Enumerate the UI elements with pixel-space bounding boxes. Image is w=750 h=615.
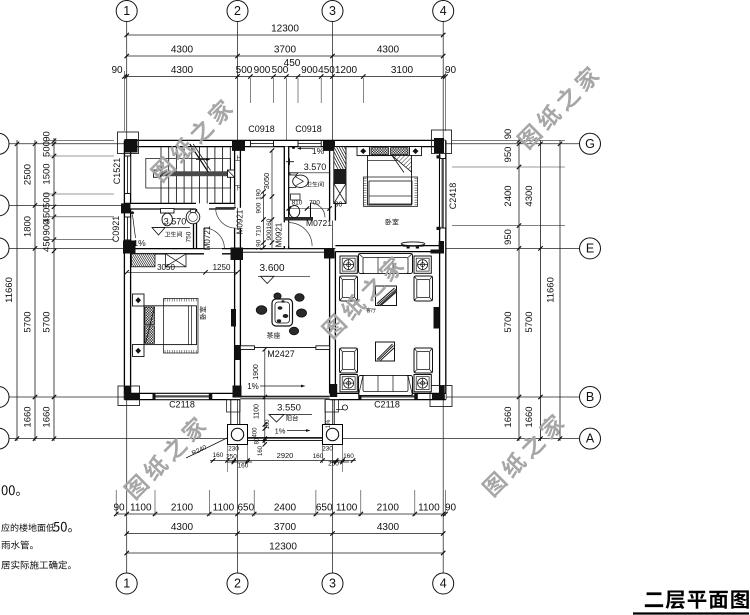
note text line 4 — [1, 561, 71, 570]
bedroom2 blanket fold — [392, 156, 412, 173]
svg-text:1250: 1250 — [213, 263, 231, 272]
tea south wall + M2427 stubs — [240, 346, 254, 350]
right dimension line 11660 — [559, 140, 561, 441]
wall interior axis2 bedroom/tea (E to B) — [235, 252, 241, 394]
svg-text:E: E — [586, 241, 594, 255]
bedroom2 dresser on E wall — [401, 242, 425, 246]
column axis4/E (L shape) — [439, 241, 444, 254]
bath1 toilet — [161, 209, 175, 214]
bottom dimension row 12300 — [127, 552, 444, 554]
column axis2/B — [233, 386, 242, 398]
bath2 toilet — [291, 194, 301, 200]
living side table bottom-left — [340, 375, 357, 392]
door M2427 sliding track — [255, 347, 316, 349]
column axis1/E — [123, 241, 136, 254]
column axis2/E — [231, 248, 244, 261]
column axis3/G — [323, 140, 335, 151]
window C2418 (right wall, bedroom2) — [440, 159, 446, 229]
grid line axis B — [9, 396, 580, 398]
bedroom2 blanket U — [369, 181, 412, 204]
svg-text:160: 160 — [213, 452, 224, 459]
grid bubble left (partial) — [0, 195, 9, 216]
living room label — [366, 308, 376, 313]
svg-text:C2118: C2118 — [169, 400, 195, 410]
svg-text:3.600: 3.600 — [259, 263, 284, 274]
svg-text:4: 4 — [440, 577, 447, 591]
pilaster box corner axis4/G — [432, 130, 452, 154]
living sofa top (3-seat) — [359, 254, 413, 274]
svg-text:1100: 1100 — [254, 404, 261, 419]
bottom extension lines — [115, 490, 117, 516]
column axis1/B (L shape) — [124, 386, 130, 399]
bedroom1 pillows — [145, 307, 155, 325]
pilaster box corner axis4/B — [430, 386, 452, 407]
window C1521 (left wall, stair) — [125, 156, 131, 194]
grid line axis 4 — [442, 22, 444, 574]
lintel over tea opening (axis E, 2-3) — [240, 248, 329, 250]
svg-text:90: 90 — [445, 65, 457, 76]
window C2118 no.2 (bottom wall, living) — [361, 394, 415, 400]
wall interior bath1 right — [194, 209, 197, 249]
svg-text:12300: 12300 — [271, 24, 299, 35]
svg-text:900: 900 — [254, 65, 271, 76]
svg-text:950: 950 — [503, 147, 514, 163]
svg-text:700: 700 — [309, 200, 320, 207]
bedroom2 bed pillows — [370, 147, 410, 156]
bath1 level mark 3.570 — [152, 227, 190, 229]
svg-text:2100: 2100 — [171, 503, 194, 514]
svg-text:C2418: C2418 — [448, 183, 458, 210]
right extension lines — [452, 140, 565, 142]
living armchair mid-right — [414, 276, 433, 301]
svg-text:250: 250 — [328, 461, 339, 468]
svg-text:5700: 5700 — [23, 311, 34, 332]
living armchair mid-left — [340, 276, 358, 301]
svg-text:3.550: 3.550 — [277, 403, 301, 414]
svg-text:500: 500 — [42, 192, 53, 208]
grid line axis E — [9, 247, 580, 249]
left dimension line 2500/1800/5700/1660 — [34, 140, 36, 441]
grid bubble 1 bottom — [116, 573, 137, 594]
wall interior axis2 stair/hall (G to E) — [235, 147, 241, 208]
grid bubble B right — [580, 387, 601, 408]
svg-text:11660: 11660 — [4, 277, 15, 303]
top dimension row detailed — [124, 76, 445, 78]
svg-text:160: 160 — [313, 453, 324, 460]
note text fragment 00. — [2, 485, 20, 496]
pilaster box corner axis1/B — [118, 386, 140, 406]
column axis3/E — [324, 248, 335, 259]
living side table bottom-right — [414, 375, 431, 392]
svg-text:3100: 3100 — [391, 65, 414, 76]
column axis4/G — [434, 138, 444, 153]
bottom dimension row 4300/3700/4300 — [127, 533, 444, 535]
bedroom1 rug with fringe — [164, 299, 199, 354]
stair break line — [190, 144, 208, 172]
grid line axis 1 — [126, 22, 128, 574]
balcony front edge — [248, 437, 323, 439]
svg-text:3050: 3050 — [262, 173, 271, 190]
svg-text:M0721: M0721 — [203, 225, 212, 250]
bedroom1 bed foot lines — [188, 306, 190, 345]
balcony column extension lines — [227, 445, 229, 473]
svg-text:M0721: M0721 — [306, 218, 332, 228]
svg-text:4300: 4300 — [171, 45, 194, 56]
wall bath2 bottom — [284, 217, 313, 221]
stair treads — [160, 147, 162, 204]
svg-text:1: 1 — [123, 4, 130, 18]
svg-text:450: 450 — [284, 58, 301, 69]
svg-text:1660: 1660 — [23, 406, 34, 427]
bedroom1 wall fixture black — [231, 309, 236, 327]
svg-text:3.570: 3.570 — [304, 162, 327, 172]
svg-text:1660: 1660 — [503, 406, 514, 427]
grid bubble left (partial) — [0, 133, 9, 154]
svg-text:1100: 1100 — [130, 503, 152, 514]
svg-text:190: 190 — [256, 189, 263, 200]
svg-text:4300: 4300 — [171, 65, 194, 76]
grid line axis 2 — [237, 22, 239, 574]
svg-text:4: 4 — [440, 4, 447, 18]
svg-text:1100: 1100 — [418, 503, 440, 514]
note text line 2 — [1, 523, 54, 531]
wardrobe bedroom2 — [334, 147, 346, 204]
svg-text:160: 160 — [343, 453, 354, 460]
svg-text:5700: 5700 — [524, 311, 535, 332]
svg-text:M0921: M0921 — [275, 222, 284, 247]
svg-text:90: 90 — [335, 202, 343, 209]
svg-text:950: 950 — [503, 229, 514, 245]
window C0921 (left wall, bath1) — [125, 217, 131, 240]
svg-text:5700: 5700 — [503, 311, 514, 332]
living armchair bottom-left — [340, 348, 358, 373]
column axis4/B (L shape) — [439, 386, 444, 400]
wall interior axis F stair bottom / bath1 top — [124, 203, 196, 209]
svg-text:1%: 1% — [312, 146, 325, 156]
stair middle handrail bar — [157, 171, 235, 176]
balcony round column right — [323, 425, 343, 445]
grid bubble left (partial) — [0, 428, 9, 449]
door M0721 bath2 — [310, 203, 312, 218]
living wall fixture black — [434, 307, 440, 329]
svg-text:1200: 1200 — [335, 65, 358, 76]
svg-text:750: 750 — [186, 231, 193, 242]
svg-text:2: 2 — [234, 4, 241, 18]
watermark — [480, 411, 567, 498]
grid line axis 3 — [332, 22, 334, 574]
bedroom1 room label — [200, 306, 207, 319]
wall interior axis3 bath2 right (G to bath bottom) — [330, 147, 336, 221]
balcony left wall — [230, 400, 232, 425]
bath2 room label — [306, 182, 323, 188]
wall interior axis3 tea/living (E to B) — [330, 251, 336, 393]
bedroom2 nightstand left — [357, 147, 370, 156]
column axis3/B — [330, 384, 337, 397]
svg-text:M2427: M2427 — [267, 349, 295, 359]
left extension lines — [44, 140, 114, 142]
svg-text:2100: 2100 — [377, 503, 400, 514]
svg-text:5700: 5700 — [42, 311, 53, 332]
svg-text:710: 710 — [256, 225, 263, 236]
bath1 washbasin — [186, 210, 200, 224]
grid line axis A — [9, 438, 580, 440]
svg-text:400: 400 — [253, 427, 259, 438]
terrace edge at axis B (2-3) — [240, 395, 329, 397]
tea room label — [267, 332, 280, 339]
svg-text:1800: 1800 — [23, 216, 34, 237]
svg-text:3700: 3700 — [274, 45, 297, 56]
window C0918 no.1 (top wall) — [250, 141, 273, 147]
grid bubble left (partial) — [0, 238, 9, 259]
watermark — [319, 254, 406, 341]
wall exterior bottom right (axis B, 3-4) — [330, 393, 446, 399]
grid bubble left (partial) — [0, 387, 9, 408]
grid bubble 2 bottom — [227, 573, 248, 594]
bedroom1 wardrobe hatch box — [132, 254, 156, 267]
svg-text:450: 450 — [42, 236, 53, 252]
svg-text:3050: 3050 — [157, 263, 175, 272]
svg-text:900: 900 — [301, 65, 318, 76]
wall stub black axis2 near tea door — [235, 345, 241, 360]
svg-text:1%: 1% — [133, 238, 146, 248]
left dimension line detailed — [53, 138, 55, 441]
bedroom1 blanket fold line — [146, 307, 155, 344]
window C0918 no.2 (top wall) — [298, 141, 321, 147]
stair up mark — [235, 155, 241, 161]
svg-text:90: 90 — [42, 131, 53, 142]
right dimension line detailed — [518, 138, 520, 441]
column axis2/G — [232, 140, 245, 151]
svg-text:90: 90 — [111, 65, 123, 76]
svg-text:650: 650 — [316, 503, 333, 514]
svg-text:160: 160 — [258, 445, 264, 456]
svg-text:C0921: C0921 — [111, 216, 121, 243]
column axis1/G — [125, 139, 138, 153]
living sofa bottom (3-seat) — [359, 376, 413, 396]
right dimension line 4300/5700/1660 — [540, 140, 542, 441]
door M0921 no.2 (corridor wall, bedroom2) — [288, 223, 290, 246]
corridor dim 3050 — [271, 150, 273, 248]
svg-text:3: 3 — [329, 4, 336, 18]
top dimension row 4300/3700/4300 — [127, 55, 444, 57]
tea stones — [295, 294, 304, 302]
svg-text:C1521: C1521 — [112, 158, 122, 185]
grid line axis G — [9, 143, 580, 145]
bedroom1 nightstand bottom — [133, 345, 145, 357]
svg-text:C0918: C0918 — [295, 124, 322, 134]
svg-text:2920: 2920 — [277, 451, 294, 460]
svg-text:A: A — [586, 432, 595, 446]
grid bubble 1 top — [116, 1, 137, 22]
svg-text:1%: 1% — [247, 382, 259, 391]
door M0921 no.1 (axis 2 wall, hall) — [216, 207, 236, 209]
grid bubble E right — [580, 238, 601, 259]
svg-text:1660: 1660 — [42, 406, 53, 427]
living armchair bottom-right — [414, 348, 433, 373]
bath2 level tee mark — [286, 161, 294, 163]
svg-text:500: 500 — [236, 65, 253, 76]
rain pipe — [342, 405, 347, 410]
svg-text:1%: 1% — [326, 419, 332, 428]
bedroom1 wardrobe X box — [166, 254, 187, 267]
svg-text:1500: 1500 — [42, 163, 53, 184]
svg-text:2: 2 — [234, 577, 241, 591]
bedroom1 dim 3050/1250 — [127, 271, 238, 273]
column axis1/F — [121, 203, 131, 213]
svg-text:3700: 3700 — [274, 522, 297, 533]
stair direction arrow — [196, 159, 208, 161]
grid bubble G right — [580, 133, 601, 154]
svg-text:B: B — [586, 390, 594, 404]
svg-text:900: 900 — [256, 202, 263, 213]
top extension lines — [249, 78, 251, 103]
wall exterior bottom left (axis B, 1-2) — [124, 393, 240, 399]
tea table group — [272, 299, 293, 326]
svg-text:11660: 11660 — [546, 277, 557, 303]
wall exterior left (axis 1) — [124, 140, 130, 399]
svg-text:4300: 4300 — [377, 45, 400, 56]
top dimension row 12300 — [127, 34, 444, 36]
wall exterior top (axis G) — [124, 140, 445, 146]
living coffee table top — [376, 286, 397, 306]
living side table top-right — [414, 256, 431, 273]
svg-text:160: 160 — [266, 218, 273, 229]
svg-text:90: 90 — [503, 129, 514, 140]
svg-text:1660: 1660 — [524, 406, 535, 427]
svg-text:2400: 2400 — [274, 503, 297, 514]
svg-text:90: 90 — [445, 503, 457, 514]
bath2 washbasin — [289, 175, 296, 188]
grid bubble 2 top — [227, 1, 248, 22]
svg-text:90: 90 — [113, 503, 125, 514]
svg-text:1100: 1100 — [336, 503, 358, 514]
wall interior corridor right x=286.5 — [284, 147, 288, 223]
grid bubble 4 top — [433, 1, 454, 22]
corridor dims 190/900/710 — [263, 191, 265, 248]
svg-text:1%: 1% — [275, 427, 286, 436]
bedroom2 rug with fringe — [364, 177, 418, 207]
svg-text:190: 190 — [256, 239, 263, 250]
balcony round column left — [228, 425, 248, 445]
svg-text:2500: 2500 — [23, 164, 34, 185]
bedroom2 bed body — [368, 156, 412, 206]
window C2118 no.1 (bottom wall, bedroom1) — [155, 394, 209, 400]
svg-text:M0921: M0921 — [236, 209, 245, 234]
svg-text:450: 450 — [318, 65, 335, 76]
R240 leader — [186, 438, 228, 459]
svg-text:4300: 4300 — [171, 522, 194, 533]
bedroom1 bed body — [144, 306, 197, 345]
svg-text:1900: 1900 — [253, 364, 260, 380]
wall interior axis E east (living top / bedroom2 bottom) — [335, 246, 439, 252]
svg-text:650: 650 — [237, 503, 254, 514]
svg-text:C2118: C2118 — [374, 400, 400, 410]
grid line axis F (unlabelled) — [9, 204, 130, 206]
door M0721 bedroom1 (axis E wall) — [203, 228, 205, 248]
svg-text:3: 3 — [329, 577, 336, 591]
watermark — [122, 414, 209, 501]
watermark — [148, 97, 235, 184]
svg-text:C0918: C0918 — [248, 124, 275, 134]
svg-text:1100: 1100 — [213, 503, 235, 514]
svg-text:2400: 2400 — [503, 185, 514, 206]
bedroom2 nightstand right — [410, 147, 422, 156]
note text line 3 — [2, 541, 33, 550]
grid bubble 4 bottom — [433, 573, 454, 594]
svg-text:900: 900 — [42, 220, 53, 236]
svg-text:230: 230 — [322, 446, 333, 453]
grid bubble 3 top — [322, 1, 343, 22]
svg-text:500: 500 — [42, 141, 53, 157]
bottom dimension row detailed — [116, 513, 445, 515]
bath2 level mark 3.570 — [289, 172, 330, 174]
svg-text:160: 160 — [265, 419, 271, 430]
svg-text:G: G — [585, 137, 595, 151]
wall interior axis E west (bedroom1 top) — [131, 249, 204, 254]
svg-text:900: 900 — [266, 229, 273, 240]
left dimension line 11660 — [16, 140, 18, 441]
svg-text:1: 1 — [123, 577, 130, 591]
grid bubble A right — [580, 428, 601, 449]
living coffee table bottom — [376, 342, 395, 361]
svg-text:4300: 4300 — [524, 185, 535, 206]
stair down mark — [235, 185, 241, 191]
pilaster box corner axis1/G — [118, 132, 139, 154]
living side table top-left — [340, 256, 357, 273]
watermark — [515, 64, 602, 151]
svg-text:12300: 12300 — [269, 542, 297, 553]
svg-text:810: 810 — [292, 200, 303, 207]
svg-text:4300: 4300 — [377, 522, 400, 533]
svg-text:3.570: 3.570 — [164, 217, 187, 227]
stair well inner rail outline — [146, 158, 231, 188]
svg-text:230: 230 — [228, 446, 239, 453]
svg-text:160: 160 — [238, 463, 249, 470]
bedroom1 nightstand top — [133, 294, 145, 306]
balcony right wall — [324, 400, 326, 425]
wall exterior right (axis 4) — [440, 140, 446, 399]
bedroom2 room label — [386, 219, 399, 226]
bath1 room label — [165, 232, 182, 238]
grid bubble 3 bottom — [322, 573, 343, 594]
drawing title — [645, 590, 749, 609]
